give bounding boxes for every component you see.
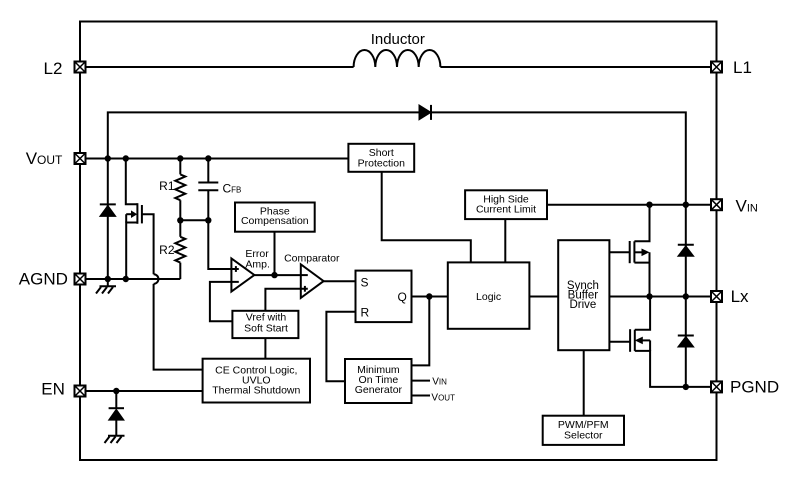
ground AGND (96, 279, 116, 294)
pin L1 (711, 62, 722, 73)
wire Lx rail (609, 296, 716, 298)
svg-text:Soft Start: Soft Start (244, 323, 288, 335)
node AGND-switch (123, 276, 129, 282)
channel bar (634, 330, 636, 351)
wire FB to error amp noninverting input (208, 220, 239, 269)
drain wire (634, 205, 649, 242)
diode D1 on top branch (419, 105, 431, 120)
gate bar (629, 329, 631, 352)
transistor Q1 (disconnect switch) (126, 159, 203, 370)
node VOUT-R1 junction (177, 155, 183, 161)
source wire (635, 351, 717, 387)
pin L2 (75, 62, 86, 73)
body arrow (634, 251, 643, 253)
diode D3 (EN clamp) (109, 391, 124, 436)
latch U3 (SR) (356, 271, 412, 323)
diode D4 (high side body) (678, 205, 694, 297)
wire L2 to inductor (80, 66, 354, 68)
diode D5 (low side body) (678, 297, 694, 387)
gate lead (609, 341, 630, 343)
comparator U2 (284, 253, 340, 298)
op-amp error amp U1 (231, 248, 270, 292)
block Phase Compensation (235, 203, 315, 232)
wire left diode branch VOUT to AGND (107, 159, 109, 280)
svg-text:Generator: Generator (355, 384, 403, 396)
svg-text:Comparator: Comparator (284, 253, 340, 265)
wire phase comp (274, 232, 276, 275)
gate bar (629, 241, 631, 263)
svg-text:Amp.: Amp. (245, 258, 270, 270)
wire drain from VOUT (126, 159, 138, 205)
wire R input from min-on-time (326, 312, 355, 382)
source wire with body arrow (126, 223, 137, 280)
svg-text:S: S (361, 276, 369, 290)
block Logic (448, 262, 530, 328)
channel bar (633, 241, 635, 262)
transistor Q3 (low side FET) (609, 297, 716, 387)
node Q junction (426, 293, 432, 299)
svg-text:Protection: Protection (358, 158, 405, 170)
wire Vref to error amp inverting input (210, 282, 239, 321)
svg-text:Inductor: Inductor (371, 31, 425, 48)
inductor L1 (354, 50, 441, 67)
wire VOUT sense (412, 395, 430, 397)
wire error amp output (254, 274, 300, 276)
svg-text:Selector: Selector (564, 430, 603, 442)
wire synch to PWM selector (583, 350, 585, 416)
svg-text:Thermal Shutdown: Thermal Shutdown (212, 385, 300, 397)
wire inductor to L1 (440, 66, 716, 68)
block CE Control Logic (203, 359, 310, 403)
gate lead (609, 251, 629, 253)
block Vref with Soft Start (232, 311, 298, 338)
pin PGND (711, 381, 722, 392)
svg-text:Lx: Lx (731, 287, 749, 306)
svg-text:VOUT: VOUT (431, 392, 455, 403)
svg-text:R2: R2 (159, 243, 175, 257)
node VOUT-switch junction (123, 155, 129, 161)
body arrow (635, 337, 643, 345)
wire hop over AGND (154, 274, 159, 284)
pin VOUT (75, 153, 86, 164)
resistor R1 (159, 159, 185, 221)
node AGND-diode (105, 276, 111, 282)
wire current limit to logic (504, 219, 506, 262)
wire comparator to S (323, 280, 355, 282)
block Short Protection (348, 144, 414, 172)
wire Vref to CE logic (264, 338, 266, 359)
transistor Q2 (high side FET) (609, 205, 649, 297)
wire logic to synch (529, 296, 558, 298)
svg-text:L2: L2 (44, 59, 63, 78)
gate lead to CE logic (142, 214, 154, 274)
svg-text:Logic: Logic (476, 291, 501, 303)
pin Lx (711, 291, 722, 302)
svg-text:PGND: PGND (730, 378, 779, 397)
svg-text:Drive: Drive (569, 299, 596, 311)
svg-text:AGND: AGND (19, 270, 68, 289)
channel bar (136, 203, 138, 224)
svg-text:Compensation: Compensation (241, 215, 309, 227)
svg-text:EN: EN (41, 380, 65, 399)
wire top diode branch: VOUT up, across, down to VIN line (108, 112, 686, 204)
block Synch Buffer Drive (558, 240, 609, 350)
diode D2 (VOUT clamp) (100, 204, 116, 216)
wire short protection to logic (382, 172, 471, 263)
svg-text:Q: Q (398, 290, 407, 304)
block PWM/PFM Selector (543, 416, 624, 445)
node Lx-diode junction (683, 293, 689, 299)
wire current limit to VIN rail (547, 204, 717, 206)
node Lx-FET junction (646, 293, 652, 299)
node VIN-FET junction (646, 202, 652, 208)
plus mark error amp (235, 266, 237, 272)
wire feedback node (180, 219, 208, 221)
node EN-diode (113, 388, 119, 394)
wire comparator inverting stub (301, 274, 308, 276)
block Minimum On Time Generator (345, 359, 412, 403)
IC boundary box (80, 22, 717, 461)
svg-text:R: R (361, 306, 370, 320)
node phase comp junction (271, 272, 277, 278)
wire AGND rail (80, 278, 180, 280)
resistor R2 (159, 220, 185, 279)
node CFB/FB (205, 217, 211, 223)
node PGND-diode junction (683, 384, 689, 390)
gate bar (141, 205, 143, 223)
svg-text:L1: L1 (733, 58, 752, 77)
pin AGND (75, 274, 86, 285)
node VOUT-diode junction (105, 155, 111, 161)
svg-text:VIN: VIN (432, 377, 447, 388)
capacitor CFB (198, 159, 241, 221)
wire Q output to logic (412, 296, 448, 298)
wire VOUT rail (80, 158, 348, 160)
node VIN-diode junction (683, 202, 689, 208)
wire EN rail (80, 390, 203, 392)
ground EN (105, 436, 125, 443)
node R1/R2 (177, 217, 183, 223)
block High Side Current Limit (465, 190, 547, 219)
wire Q to min-on-time (412, 297, 430, 366)
node VOUT-CFB junction (205, 155, 211, 161)
svg-text:Current Limit: Current Limit (476, 204, 536, 216)
wire Vref to comparator noninverting input (265, 289, 307, 311)
wire VIN sense (412, 380, 430, 382)
plus mark comparator (304, 286, 306, 292)
pin EN (75, 386, 86, 397)
pin VIN (711, 199, 722, 210)
svg-text:R1: R1 (159, 179, 175, 193)
drain wire (635, 297, 650, 330)
source wire (634, 263, 649, 297)
